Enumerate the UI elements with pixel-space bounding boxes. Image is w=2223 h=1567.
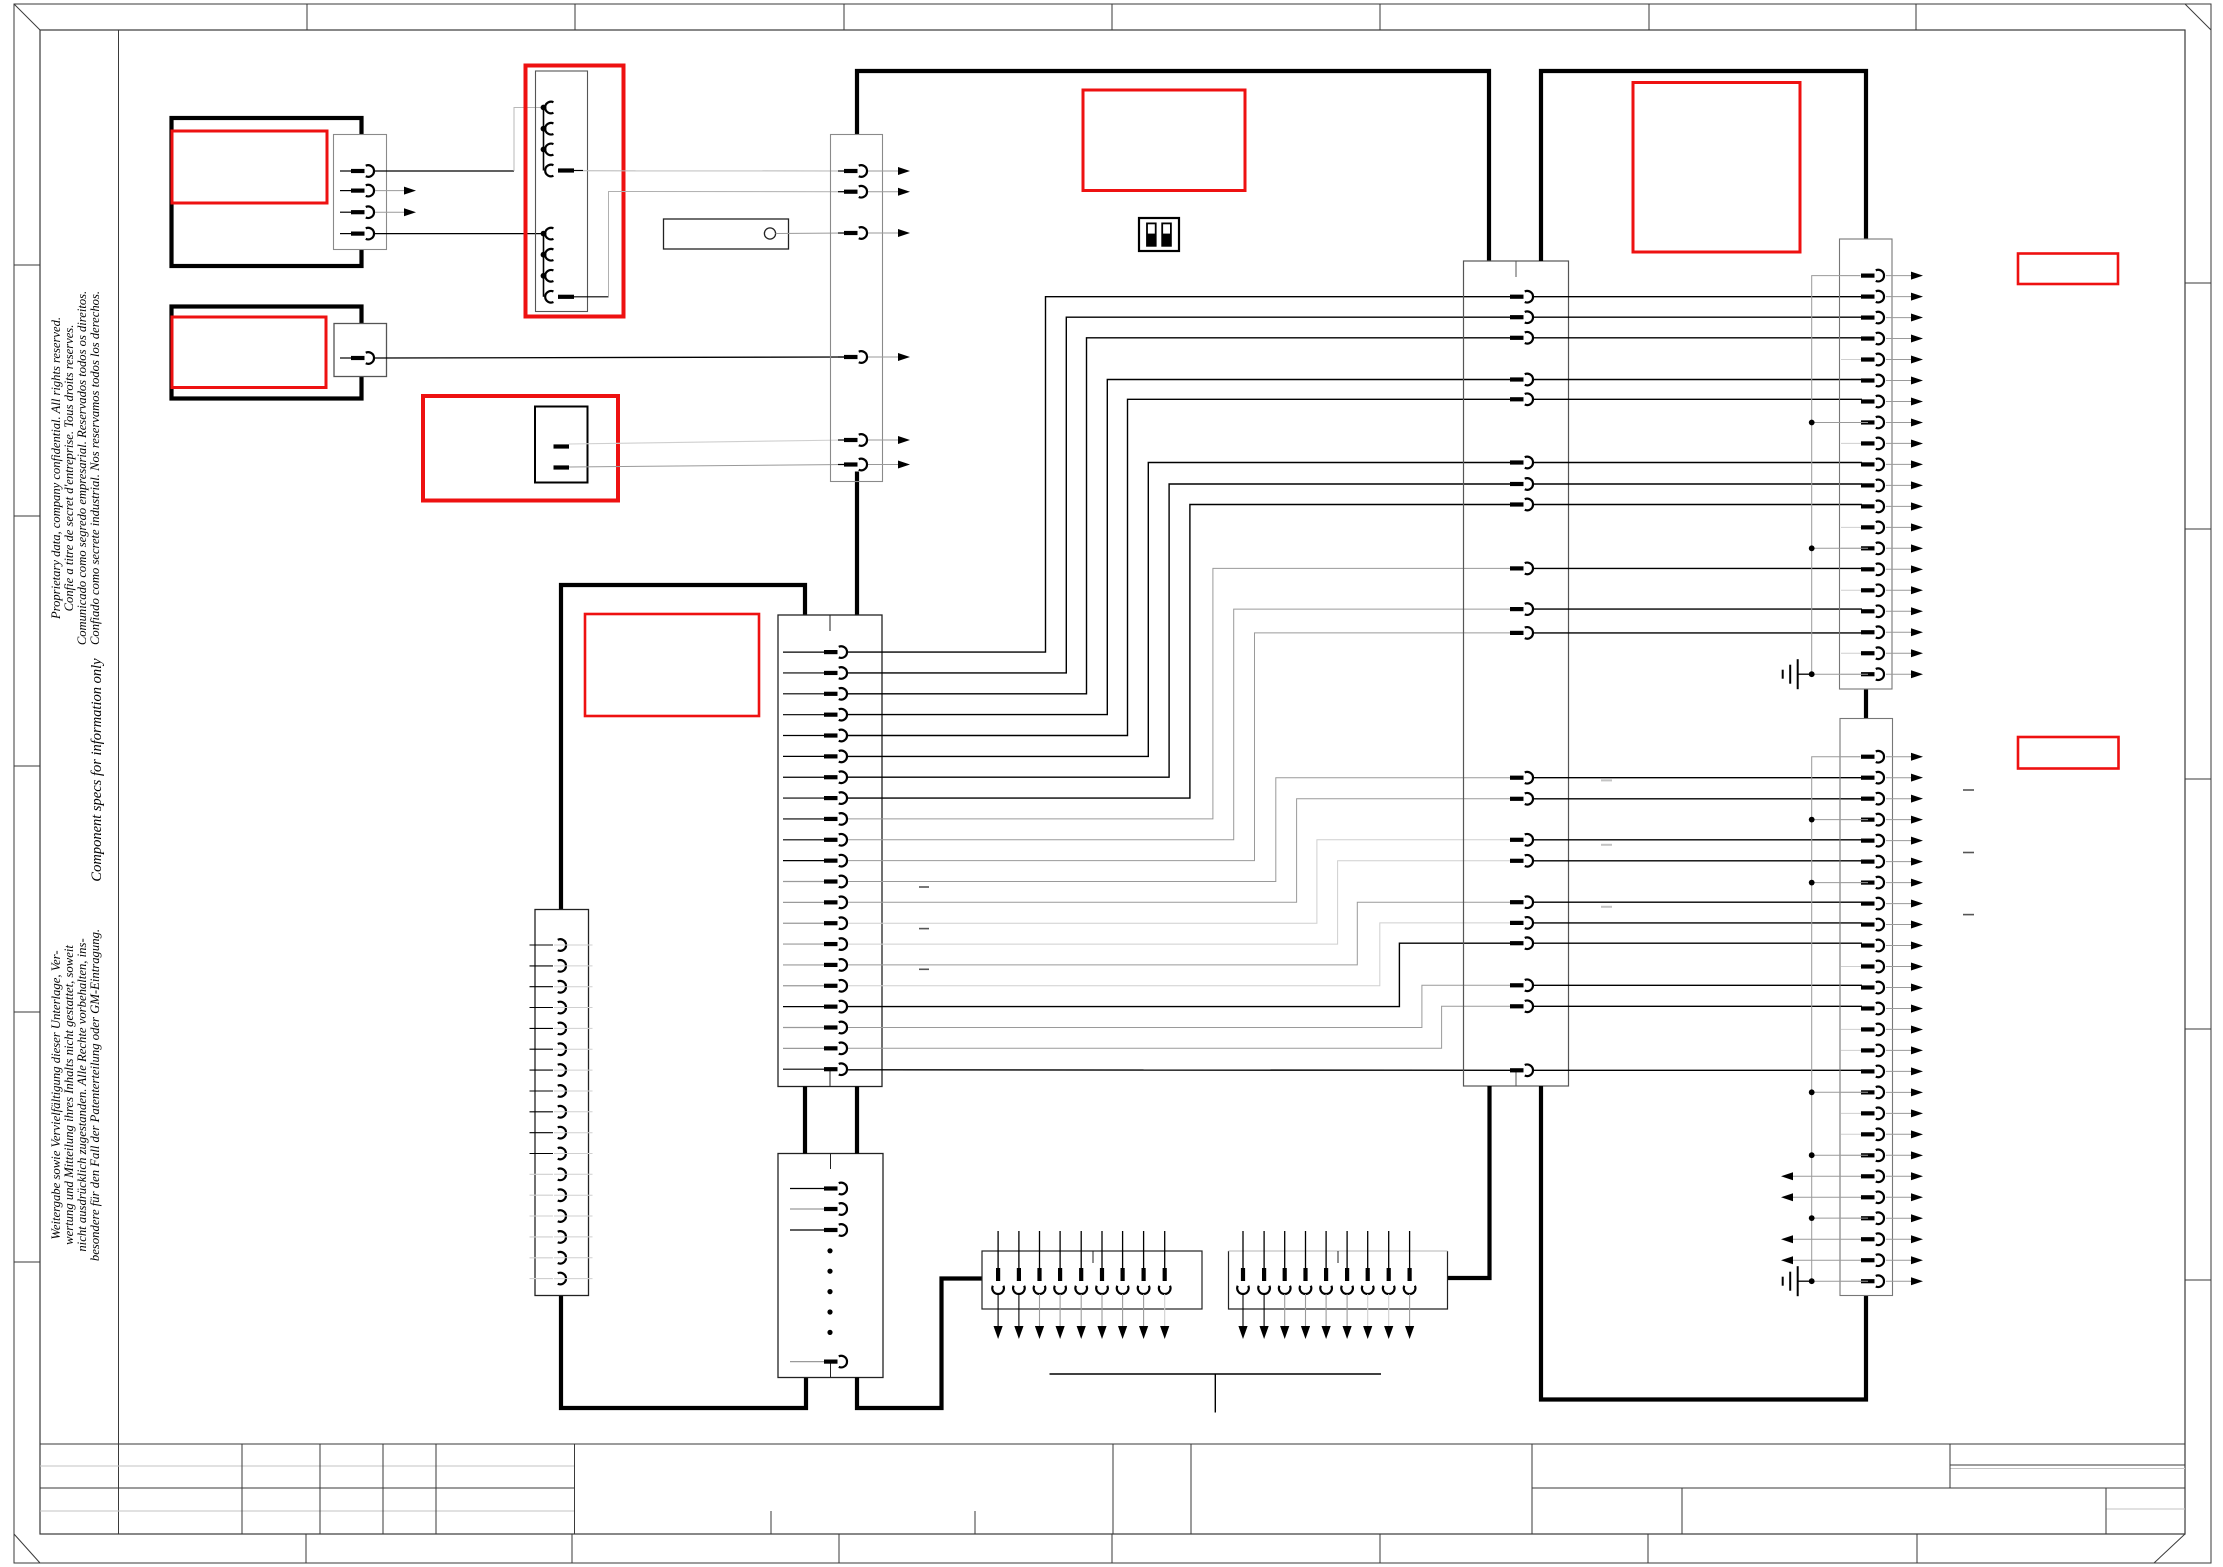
connector E pin 6 <box>1510 460 1524 464</box>
wire E pin 21 to F column <box>1534 1069 1862 1071</box>
wire H pin 14 to E <box>848 840 1515 923</box>
wire E pin 10 to F column <box>1534 608 1862 610</box>
connector F1 pin 11 with arrow <box>1861 483 1875 487</box>
connector E pin 9 <box>1510 566 1524 570</box>
connector E pin 13 <box>1510 797 1524 801</box>
strip 1 pin 1 with down arrow <box>997 1231 999 1268</box>
connector F1 pin 4 with arrow <box>1861 336 1875 340</box>
svg-text:nicht ausdrücklich zugestanden: nicht ausdrücklich zugestanden. Alle Rec… <box>75 938 89 1251</box>
connector E pin 21 <box>1510 1068 1524 1072</box>
svg-text:Proprietary data, company con: Proprietary data, company confidential. … <box>49 317 63 620</box>
wire H pin 18 to E <box>848 943 1515 1006</box>
connector F2 pin 15 with arrow <box>1841 1049 1868 1051</box>
wire H pin 20 to E <box>848 1006 1515 1048</box>
wire E pin 5 to F column <box>1534 398 1862 400</box>
connector F2 pin 24 with arrow <box>1793 1238 1867 1240</box>
component C body <box>535 407 588 483</box>
svg-text:Confiado como secrete industri: Confiado como secrete industrial. Nos re… <box>88 291 102 645</box>
ground bus F2 (gray) <box>1812 757 1860 1281</box>
connector E pin 4 <box>1510 377 1524 381</box>
right margin zone ticks <box>2185 282 2211 284</box>
connector L pin 13 <box>530 1194 554 1196</box>
connector F2 pin 25 with arrow <box>1793 1259 1867 1261</box>
wire E pin 20 to F column <box>1534 1005 1862 1007</box>
device block A2 outline <box>172 307 362 399</box>
sensor component with circle <box>664 219 789 249</box>
connector F2 pin 18 with arrow <box>1841 1112 1868 1114</box>
connector H pin 7 <box>783 776 826 778</box>
thick link H to K left <box>803 1087 807 1154</box>
wire E pin 6 to F column <box>1534 462 1862 464</box>
ground bus F1 (gray) <box>1812 276 1860 675</box>
connector L pin 17 <box>530 1278 554 1280</box>
corner diagonal bottom-right <box>2154 1534 2185 1563</box>
connector F2 pin 3 with arrow <box>1861 797 1875 801</box>
connector L pin 1 <box>530 944 554 946</box>
svg-text:Comunicado como segredo empres: Comunicado como segredo empresarial. Res… <box>75 291 89 645</box>
left text column divider <box>118 30 120 1534</box>
wire E pin 2 to F column <box>1534 316 1862 318</box>
svg-text:Weitergabe sowie Vervielfält: Weitergabe sowie Vervielfältigung dieser… <box>49 950 63 1239</box>
connector E pin 18 <box>1510 941 1524 945</box>
connector F2 pin 10 with arrow <box>1861 943 1875 947</box>
left margin zone ticks <box>14 264 40 266</box>
strip 1 pin 4 with down arrow <box>1059 1231 1061 1268</box>
connector H pin 19 <box>783 1026 826 1028</box>
connector F1 pin 1 with arrow <box>1841 275 1868 277</box>
thick link F1 to F2 <box>1864 689 1868 718</box>
connector F2 pin 7 with arrow <box>1841 882 1868 884</box>
connector A pin 3 <box>340 211 353 213</box>
wire E pin 7 to F column <box>1534 483 1862 485</box>
wire H pin 1 to E <box>848 297 1515 652</box>
wire A pin2 arrow <box>375 190 404 192</box>
bottom margin zone ticks <box>305 1534 307 1563</box>
connector L pin 11 <box>530 1153 554 1155</box>
connector H pin 5 <box>783 735 826 737</box>
wire H pin 12 to E <box>848 778 1515 882</box>
wire C pin1 to connector D pin5 <box>569 440 847 444</box>
connector E pin 11 <box>1510 631 1524 635</box>
highlight box M (red) <box>1083 90 1245 191</box>
wire H pin 6 to E <box>848 463 1515 757</box>
connector D <box>831 135 883 482</box>
wire H pin 9 to E <box>848 568 1515 819</box>
connector F2 pin 14 with arrow <box>1841 1028 1868 1030</box>
connector F1 pin 19 with arrow <box>1841 652 1868 654</box>
wire E pin 19 to F column <box>1534 984 1862 986</box>
wire H pin 5 to E <box>848 399 1515 735</box>
connector H pin 21 <box>783 1068 826 1070</box>
wire H pin 21 to connector E (straight) <box>848 1069 1515 1072</box>
svg-text:wertung und Mitteilung ihres I: wertung und Mitteilung ihres Inhalts nic… <box>62 945 76 1245</box>
wire H pin 17 to E <box>848 923 1515 986</box>
connector B upper pin group <box>543 108 545 171</box>
connector F2 pin 6 with arrow <box>1861 859 1875 863</box>
wire circle component to connector D pin3 <box>776 232 847 235</box>
connector E pin 19 <box>1510 983 1524 987</box>
wire B pin8 riser to connector D pin2 <box>609 192 848 297</box>
wire H pin 16 to E <box>848 902 1515 965</box>
connector E pin 1 <box>1510 295 1524 299</box>
connector H pin 15 <box>783 943 826 945</box>
strip 1 pin 5 with down arrow <box>1080 1231 1082 1268</box>
corner diagonal top-left <box>14 4 40 30</box>
connector E pin 14 <box>1510 838 1524 842</box>
connector F1 pin 9 with arrow <box>1841 442 1868 444</box>
connector E pin 7 <box>1510 482 1524 486</box>
relay strip 2 <box>1229 1251 1448 1309</box>
connector B body <box>536 71 588 312</box>
connector E pin 5 <box>1510 397 1524 401</box>
connector H pin 9 <box>783 818 826 820</box>
connector K ellipsis dots <box>827 1248 832 1253</box>
connector H pin 11 <box>783 860 826 862</box>
strip 2 pin 9 with down arrow <box>1409 1231 1411 1268</box>
highlight box R2 (red) <box>2018 737 2119 769</box>
connector H pin 6 <box>783 755 826 757</box>
connector L pin 9 <box>530 1111 554 1113</box>
component C pin 2 <box>554 465 570 469</box>
svg-text:besondere für den Fall der Pat: besondere für den Fall der Patenterteilu… <box>88 929 102 1261</box>
strip 2 pin 5 with down arrow <box>1325 1231 1327 1268</box>
connector A pin 2 <box>340 190 353 192</box>
connector H pin 4 <box>783 714 826 716</box>
connector K pin 2 <box>790 1208 826 1210</box>
connector F1 pin 13 with arrow <box>1841 526 1868 528</box>
wire E pin 3 to F column <box>1534 337 1862 339</box>
wire E pin 13 to F column <box>1534 798 1862 800</box>
wire H pin 11 to E <box>848 633 1515 861</box>
highlight box A (red) <box>172 131 327 203</box>
ground rail under strips <box>1050 1373 1382 1375</box>
connector A2 <box>334 324 387 377</box>
reference dashes near F2 <box>1963 789 1974 791</box>
highlight box R1 (red) <box>2018 254 2118 285</box>
strip 2 pin 7 with down arrow <box>1367 1231 1369 1268</box>
connector A pin 4 <box>340 233 353 235</box>
connector H pin 18 <box>783 1006 826 1008</box>
connector E pin 17 <box>1510 921 1524 925</box>
highlight box B (red) <box>526 66 624 317</box>
strip 2 pin 2 with down arrow <box>1263 1231 1265 1268</box>
strip 1 pin 7 with down arrow <box>1122 1231 1124 1268</box>
connector F1 pin 17 with arrow <box>1861 609 1875 613</box>
connector F2 pin 13 with arrow <box>1861 1006 1875 1010</box>
connector L pin 7 <box>530 1069 554 1071</box>
connector E pin 2 <box>1510 315 1524 319</box>
connector F1 pin 15 with arrow <box>1861 567 1875 571</box>
ground symbol F1 <box>1797 659 1799 689</box>
connector E pin 12 <box>1510 776 1524 780</box>
connector F2 pin 23 with arrow <box>1841 1217 1868 1219</box>
wire E pin 16 to F column <box>1534 901 1862 903</box>
connector H pin 13 <box>783 901 826 903</box>
wire E pin 1 to F column <box>1534 296 1862 298</box>
wire E pin 15 to F column <box>1534 860 1862 862</box>
corner diagonal top-right <box>2185 4 2211 30</box>
reference dashes near H <box>919 886 929 888</box>
connector K last pin <box>790 1361 826 1363</box>
wire H pin 10 to E <box>848 609 1515 840</box>
highlight box A2 (red) <box>172 317 326 388</box>
connector L pin 15 <box>530 1236 554 1238</box>
connector F1 pin 8 with arrow <box>1841 422 1868 424</box>
corner diagonal bottom-left <box>14 1534 40 1563</box>
connector F1 pin 14 with arrow <box>1841 547 1868 549</box>
connector L pin 5 <box>530 1027 554 1029</box>
connector E pin 8 <box>1510 502 1524 506</box>
wire H pin 19 to E <box>848 985 1515 1027</box>
connector F2 pin 26 with arrow <box>1841 1280 1868 1282</box>
top margin zone ticks <box>306 4 308 30</box>
connector F1 pin 7 with arrow <box>1861 399 1875 403</box>
strip 1 pin 2 with down arrow <box>1018 1231 1020 1268</box>
strip 2 pin 8 with down arrow <box>1388 1231 1390 1268</box>
connector F1 pin 6 with arrow <box>1861 378 1875 382</box>
connector H pin 17 <box>783 985 826 987</box>
connector H pin 14 <box>783 922 826 924</box>
connector F2 pin 17 with arrow <box>1841 1091 1868 1093</box>
strip 1 pin 9 with down arrow <box>1164 1231 1166 1268</box>
connector F1 <box>1840 239 1893 689</box>
DIP switch <box>1139 218 1179 251</box>
wire E pin 11 to F column <box>1534 632 1862 634</box>
connector F2 pin 16 with arrow <box>1861 1069 1875 1073</box>
connector H pin 8 <box>783 797 826 799</box>
wire H pin 7 to E <box>848 484 1515 777</box>
connector H pin 16 <box>783 964 826 966</box>
connector F2 pin 8 with arrow <box>1861 901 1875 905</box>
connector L <box>535 910 589 1296</box>
component C pin 1 <box>554 444 570 448</box>
wire A2 to connector D pin4 <box>375 357 847 358</box>
wire E pin 4 to F column <box>1534 379 1862 381</box>
connector H <box>778 615 882 1087</box>
connector F2 pin 11 with arrow <box>1841 966 1868 968</box>
connector F2 pin 21 with arrow <box>1793 1175 1867 1177</box>
strip 1 pin 8 with down arrow <box>1143 1231 1145 1268</box>
connector L pin 6 <box>530 1048 554 1050</box>
connector H pin 10 <box>783 839 826 841</box>
wire E pin 17 to F column <box>1534 922 1862 924</box>
title block grid <box>40 1443 2185 1445</box>
right block R outline (thick) <box>1541 71 1866 261</box>
wire B pin4 to connector D pin1 <box>583 170 847 172</box>
connector L pin 4 <box>530 1007 554 1009</box>
connector F1 pin 20 with arrow <box>1841 673 1868 675</box>
relay strip 1 <box>982 1251 1202 1309</box>
svg-text:Component specs for informatio: Component specs for information only <box>89 658 105 882</box>
wire A pin1 to block B <box>375 170 514 172</box>
strip 1 pin 6 with down arrow <box>1101 1231 1103 1268</box>
connector F1 pin 16 with arrow <box>1841 589 1868 591</box>
connector A <box>334 135 387 250</box>
wire H pin 4 to E <box>848 380 1515 715</box>
main block M outline (thick) <box>857 71 1489 261</box>
connector F1 pin 10 with arrow <box>1861 462 1875 466</box>
connector E bottom stub to strip2 <box>1448 1086 1490 1278</box>
wire H pin 3 to E <box>848 338 1515 694</box>
connector L pin 8 <box>530 1090 554 1092</box>
connector L pin 3 <box>530 986 554 988</box>
connector L pin 2 <box>530 965 554 967</box>
connector F1 pin 3 with arrow <box>1861 315 1875 319</box>
device block A outline <box>172 118 362 266</box>
ground symbol F2 <box>1797 1266 1799 1296</box>
device block G outline (thick) <box>561 585 805 909</box>
wire H pin 15 to E <box>848 861 1515 944</box>
connector E pin 10 <box>1510 607 1524 611</box>
connector H pin 20 <box>783 1047 826 1049</box>
strip 2 pin 4 with down arrow <box>1305 1231 1307 1268</box>
reference dashes near E <box>1601 779 1612 781</box>
connector F2 pin 19 with arrow <box>1841 1133 1868 1135</box>
connector H pin 2 <box>783 672 826 674</box>
connector F2 pin 1 with arrow <box>1841 756 1868 758</box>
connector F1 pin 18 with arrow <box>1861 630 1875 634</box>
connector F2 pin 22 with arrow <box>1793 1196 1867 1198</box>
connector F2 pin 9 with arrow <box>1861 922 1875 926</box>
connector L pin 14 <box>530 1215 554 1217</box>
thick link K bottom to corner <box>857 1279 982 1409</box>
wire A pin3 arrow <box>375 211 404 213</box>
strip 1 pin 3 with down arrow <box>1039 1231 1041 1268</box>
connector H pin 1 <box>783 651 826 653</box>
wire E pin 14 to F column <box>1534 839 1862 841</box>
connector F1 pin 2 with arrow <box>1861 294 1875 298</box>
connector H pin 3 <box>783 693 826 695</box>
wire A pin4 to block B <box>375 233 544 235</box>
connector K pin 3 <box>790 1229 826 1231</box>
connector F1 pin 5 with arrow <box>1841 359 1868 361</box>
wire H pin 8 to E <box>848 505 1515 799</box>
highlight box R-top (red) <box>1633 83 1800 253</box>
highlight box C (red) <box>423 396 618 501</box>
connector F2 pin 20 with arrow <box>1841 1154 1868 1156</box>
connector L pin 12 <box>530 1173 554 1175</box>
connector A pin 1 <box>340 170 353 172</box>
connector K pin 1 <box>790 1188 826 1190</box>
connector F2 pin 4 with arrow <box>1841 819 1868 821</box>
connector H pin 12 <box>783 881 826 883</box>
strip 2 pin 1 with down arrow <box>1242 1231 1244 1268</box>
connector F2 pin 2 with arrow <box>1861 776 1875 780</box>
strip 2 pin 6 with down arrow <box>1346 1231 1348 1268</box>
wire E pin 8 to F column <box>1534 504 1862 506</box>
wire C pin2 to connector D pin6 <box>569 465 847 468</box>
connector L pin 10 <box>530 1132 554 1134</box>
connector E <box>1464 261 1569 1086</box>
connector E pin 16 <box>1510 900 1524 904</box>
connector L pin 16 <box>530 1257 554 1259</box>
wire E pin 12 to F column <box>1534 777 1862 779</box>
svg-text:Confie a titre de secret d': Confie a titre de secret d'entreprise. T… <box>62 325 76 612</box>
connector F1 pin 12 with arrow <box>1861 504 1875 508</box>
connector K <box>778 1154 883 1378</box>
connector E pin 15 <box>1510 859 1524 863</box>
highlight box G (red) <box>585 614 759 716</box>
wire E pin 9 to F column <box>1534 567 1862 569</box>
strip 2 pin 3 with down arrow <box>1284 1231 1286 1268</box>
connector B lower pin group <box>543 234 545 297</box>
wire B riser (gray) <box>514 108 543 172</box>
connector E pin 20 <box>1510 1004 1524 1008</box>
connector F2 <box>1840 719 1893 1296</box>
main block M left edge lower segment <box>855 472 859 616</box>
wire H pin 2 to E <box>848 317 1515 673</box>
connector F2 pin 12 with arrow <box>1861 985 1875 989</box>
wire H pin 13 to E <box>848 799 1515 903</box>
connector E pin 3 <box>1510 336 1524 340</box>
connector F2 pin 5 with arrow <box>1861 839 1875 843</box>
thick link H to K right <box>855 1087 859 1154</box>
wire E pin 18 to F column <box>1534 942 1862 944</box>
right block lower-right corner <box>1541 1086 1866 1400</box>
